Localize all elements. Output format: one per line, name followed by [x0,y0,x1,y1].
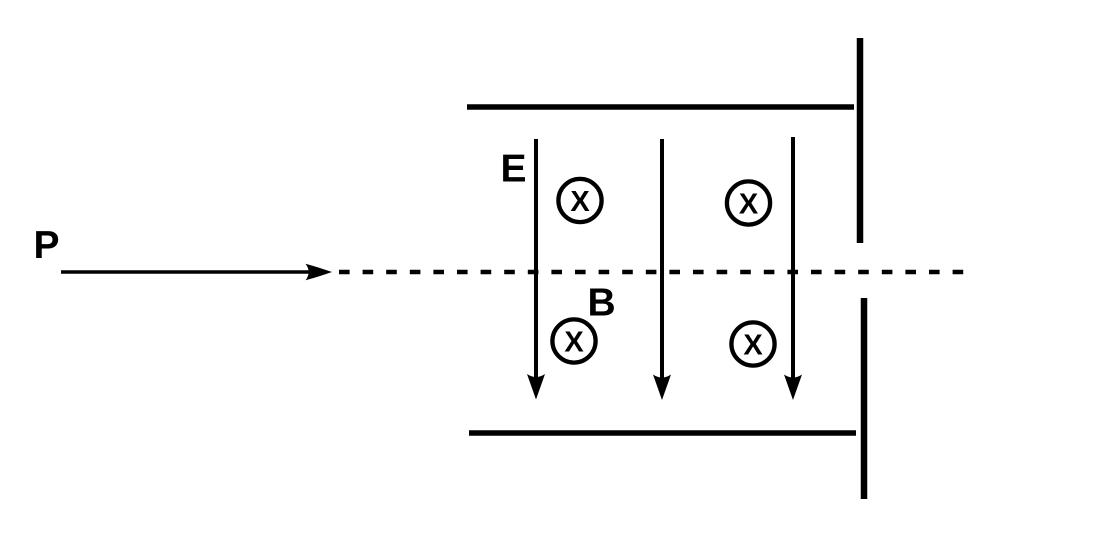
dashed beam axis [339,270,964,275]
screen lower segment [861,298,868,499]
E field arrow 3 [784,137,802,400]
B field symbol (circled X) top left [558,179,601,222]
svg-text:X: X [570,186,590,218]
E field arrow 1 [527,139,545,400]
svg-text:P: P [34,224,60,267]
E field arrow 2 [653,139,671,400]
top plate [467,104,854,110]
bottom plate [469,430,856,436]
svg-text:X: X [739,189,759,221]
svg-text:E: E [501,148,527,191]
B field symbol (circled X) top right [727,181,770,224]
svg-text:B: B [588,282,616,325]
incoming particle velocity arrow [61,264,332,281]
B field symbol (circled X) bottom left [552,319,595,362]
svg-text:X: X [564,327,584,359]
B field symbol (circled X) bottom right [731,322,774,365]
screen upper segment [857,38,864,243]
svg-text:X: X [743,330,763,362]
